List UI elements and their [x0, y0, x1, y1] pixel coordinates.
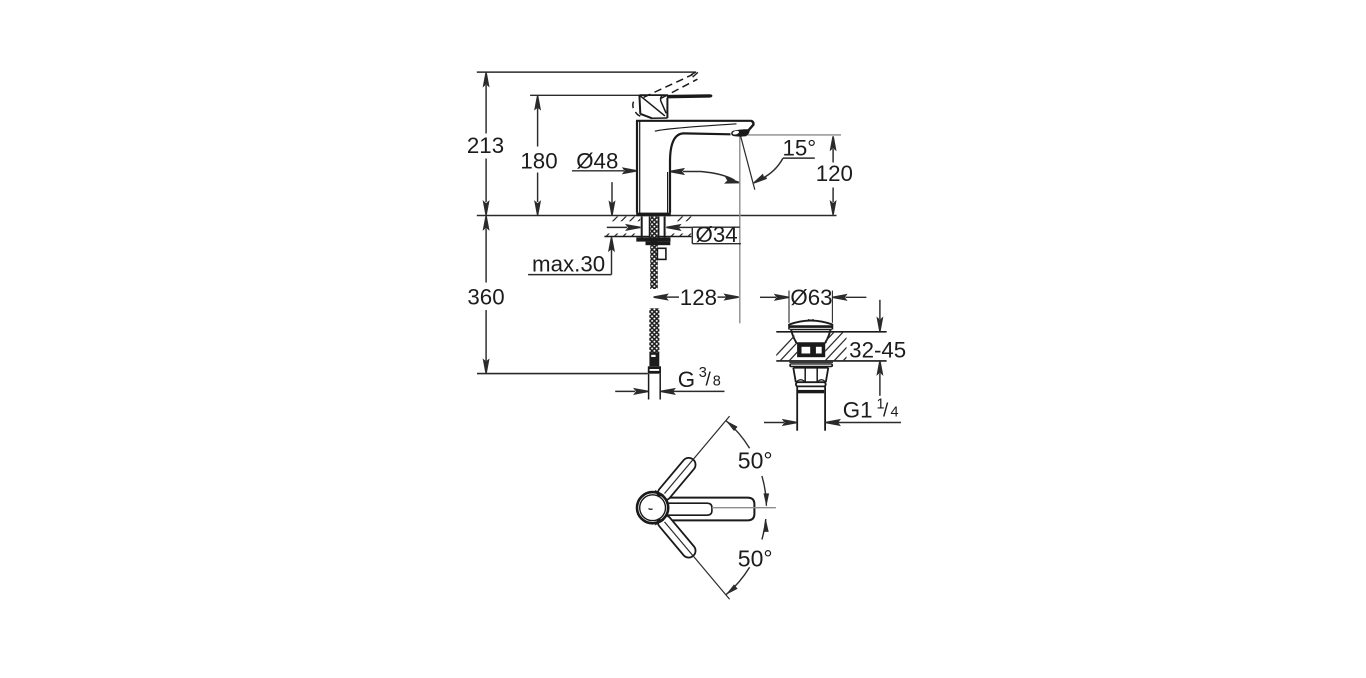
svg-text:/: /	[883, 401, 889, 422]
svg-text:4: 4	[891, 405, 899, 421]
svg-text:128: 128	[680, 285, 717, 310]
svg-text:32-45: 32-45	[849, 338, 906, 363]
svg-text:120: 120	[816, 161, 853, 186]
svg-text:50°: 50°	[738, 545, 773, 571]
svg-text:Ø48: Ø48	[576, 149, 618, 174]
svg-text:8: 8	[713, 374, 721, 390]
svg-text:180: 180	[520, 148, 557, 173]
svg-text:/: /	[706, 370, 712, 391]
svg-text:15°: 15°	[783, 136, 817, 161]
svg-text:G1: G1	[843, 398, 873, 423]
svg-text:50°: 50°	[738, 448, 773, 474]
svg-text:Ø63: Ø63	[790, 285, 832, 310]
svg-text:Ø34: Ø34	[696, 222, 738, 247]
svg-text:360: 360	[467, 285, 504, 310]
svg-text:213: 213	[467, 133, 504, 158]
svg-text:G: G	[678, 367, 695, 392]
svg-text:max.30: max.30	[532, 251, 605, 276]
